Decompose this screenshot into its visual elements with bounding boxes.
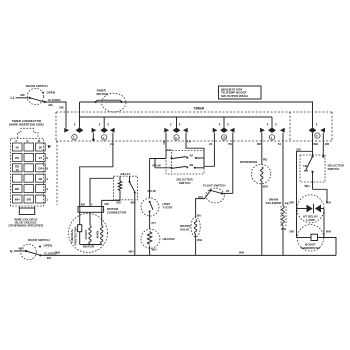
wire cam5 common stem down to selector: [312, 133, 314, 156]
motor winding common: [80, 244, 102, 246]
svg-text:LAMP: LAMP: [306, 218, 315, 222]
cam switch 2: [79, 102, 81, 128]
selector switch (right): [300, 155, 325, 182]
pole B contacts and arm: [170, 167, 172, 169]
svg-text:PROTECTOR: PROTECTOR: [74, 226, 78, 246]
svg-text:RELAY: RELAY: [121, 172, 131, 176]
wire cam6 right stem to switch box: [186, 133, 204, 168]
svg-text:20: 20: [226, 189, 230, 193]
svg-text:(WIRE INSERTION SIDE): (WIRE INSERTION SIDE): [9, 123, 44, 127]
wire cam10 right stem to float switch: [232, 133, 234, 194]
svg-text:WH: WH: [326, 230, 331, 234]
svg-text:SW (SUPER WASH: SW (SUPER WASH: [221, 94, 248, 98]
wire door switch output to cam 2 contact: [45, 102, 66, 128]
svg-text:WH: WH: [313, 142, 318, 146]
selector switch (2-pole) box: [166, 151, 204, 175]
wire L1 lead: [16, 97, 29, 99]
svg-text:27: 27: [39, 156, 43, 160]
svg-text:DISPENSER: DISPENSER: [240, 160, 258, 164]
wire cam5 right contact stem down to selector: [322, 133, 324, 156]
svg-text:RD-W: RD-W: [153, 164, 161, 168]
svg-text:Y: Y: [91, 203, 93, 207]
cam follower ticks: [75, 124, 76, 126]
water valve: [191, 217, 200, 237]
wire thermostat left lead: [296, 209, 298, 238]
wire cam7 left stem to dispenser: [261, 133, 263, 165]
svg-text:10A: 10A: [167, 148, 173, 152]
main winding: [101, 212, 103, 225]
wire cam7 right stem to drain solenoid: [282, 133, 284, 206]
wire main top line (timer motor line): [80, 101, 314, 103]
limit thermostat: [141, 198, 159, 216]
svg-text:MOTOR: MOTOR: [83, 244, 95, 248]
svg-text:L1: L1: [11, 96, 15, 100]
svg-text:WH: WH: [305, 184, 310, 188]
svg-text:WH: WH: [197, 238, 202, 242]
svg-text:WH: WH: [239, 251, 244, 255]
wire cam common bus: [80, 116, 273, 118]
wire cam6-left node to heater chain: [150, 158, 166, 160]
svg-text:WH: WH: [281, 227, 286, 231]
relay coil: [118, 176, 122, 195]
wire cam4 right to motor feed dogleg: [80, 133, 113, 207]
svg-text:THERMOSTAT: THERMOSTAT: [300, 246, 321, 250]
thermal protector: [79, 212, 81, 224]
cam switch 6: [176, 117, 178, 128]
pole A contacts and arm: [170, 157, 172, 159]
arrow leader tip: [48, 145, 52, 148]
wire N lead: [14, 250, 26, 252]
wire lamp right to thermostat right: [323, 209, 325, 238]
connector cells row 6: [12, 195, 22, 203]
svg-text:START: START: [84, 229, 88, 239]
wire relay RD output to motor connector: [102, 195, 120, 207]
svg-text:PU: PU: [152, 221, 156, 225]
cam switch 5: [312, 102, 314, 128]
wire cam10 left stem to switch box: [204, 133, 214, 167]
svg-text:OPEN: OPEN: [47, 90, 56, 94]
svg-text:CLOSED: CLOSED: [44, 251, 57, 255]
svg-text:WH: WH: [19, 247, 24, 251]
wire thermostat to neutral corner: [324, 238, 336, 256]
svg-text:10: 10: [222, 136, 226, 140]
svg-text:T-STAT: T-STAT: [163, 205, 173, 209]
svg-text:SWITCH: SWITCH: [179, 181, 191, 185]
svg-text:WH: WH: [326, 201, 331, 205]
svg-text:WH: WH: [152, 247, 157, 251]
motor connector bar: [78, 207, 104, 213]
wire relay WH output to neutral bus: [134, 193, 136, 255]
svg-text:SWITCH: SWITCH: [328, 167, 340, 171]
wire cam6 left stem: [165, 133, 167, 159]
svg-text:26: 26: [16, 146, 20, 150]
svg-text:BU: BU: [197, 213, 201, 217]
svg-text:HEATER: HEATER: [163, 237, 176, 241]
svg-text:WH: WH: [15, 198, 20, 202]
svg-text:30: 30: [16, 168, 20, 172]
connector cells row 4: [12, 174, 22, 182]
neutral bus: [40, 254, 336, 256]
connector tail: [19, 208, 34, 215]
start winding: [89, 212, 91, 225]
svg-text:WH: WH: [129, 250, 134, 254]
relay contact: [129, 181, 131, 183]
svg-text:WH: WH: [263, 184, 268, 188]
svg-text:BU: BU: [199, 195, 203, 199]
svg-text:OPEN: OPEN: [44, 244, 53, 248]
connector cells row 2: [12, 153, 22, 161]
svg-text:28: 28: [39, 146, 43, 150]
linkage: [170, 152, 172, 172]
svg-text:MOTOR: MOTOR: [97, 92, 109, 96]
cam switch 10: [223, 117, 225, 128]
svg-text:RD-W: RD-W: [148, 189, 156, 193]
svg-text:MAIN: MAIN: [95, 231, 99, 239]
heater: [141, 229, 160, 248]
wire float switch to water valve: [196, 191, 211, 218]
dashed leader to timer connector: [56, 141, 58, 205]
svg-text:FLOAT SWITCH: FLOAT SWITCH: [203, 183, 225, 187]
svg-text:SOLENOID: SOLENOID: [266, 201, 283, 205]
timer connector key outline: [17, 128, 38, 138]
svg-text:VALVE: VALVE: [180, 227, 190, 231]
motor M1: [69, 214, 108, 253]
boost thermostat: [297, 225, 323, 251]
svg-text:CONNECTOR: CONNECTOR: [107, 211, 127, 215]
HT delay lamp: [297, 195, 324, 223]
wire BR branch to lamp left: [297, 151, 313, 208]
svg-text:DOOR SWITCH: DOOR SWITCH: [26, 84, 48, 88]
svg-text:TIMER: TIMER: [194, 106, 205, 110]
connector cells row 5: [12, 185, 22, 193]
wire selector output to lamp: [313, 189, 328, 203]
svg-text:OTHERWISE SPECIFIED: OTHERWISE SPECIFIED: [8, 224, 44, 228]
svg-text:24: 24: [209, 142, 213, 146]
connector cells row 1: [12, 143, 22, 151]
connector cells row 3: [12, 164, 22, 172]
timer connector grid outer: [11, 139, 44, 206]
svg-text:DOOR SWITCH: DOOR SWITCH: [28, 238, 50, 242]
cam switch 7: [271, 117, 273, 128]
note box: heat dry / temp boost / super wash: [219, 86, 262, 99]
cam switch 4: [103, 117, 105, 128]
wire relay feed from motor connector pin: [90, 178, 114, 206]
svg-text:F: F: [16, 139, 18, 143]
